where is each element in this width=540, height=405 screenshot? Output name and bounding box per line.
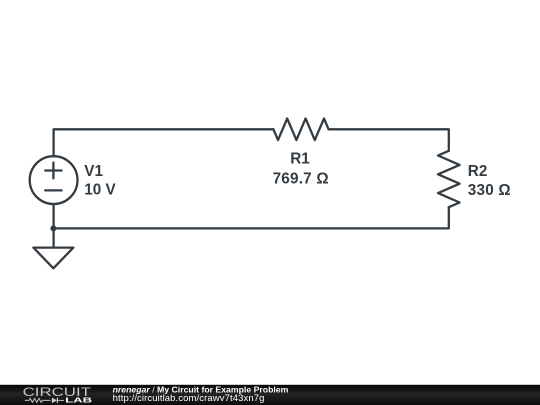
svg-text:V1: V1 <box>84 163 103 180</box>
logo resistor squiggle <box>25 398 51 402</box>
svg-text:330 Ω: 330 Ω <box>468 182 511 199</box>
logo CIRCUIT text <box>23 386 91 399</box>
resistor R2 <box>438 151 460 207</box>
svg-text:769.7 Ω: 769.7 Ω <box>273 171 329 188</box>
wire V1 bottom to ground <box>52 204 54 248</box>
logo LAB text <box>65 396 92 404</box>
svg-text:10 V: 10 V <box>84 182 116 199</box>
footer bar <box>0 385 540 405</box>
svg-text:R1: R1 <box>290 151 310 168</box>
voltage source V1 circle <box>30 156 78 204</box>
V1 plus sign <box>45 163 61 179</box>
wire top rail right of R1 <box>329 129 449 151</box>
svg-text:R2: R2 <box>468 163 488 180</box>
logo diode <box>52 398 57 404</box>
V1 minus sign <box>45 189 61 191</box>
node junction dot <box>50 225 56 231</box>
ground <box>33 248 73 269</box>
svg-text:http://circuitlab.com/crawv7t4: http://circuitlab.com/crawv7t43xn7g <box>113 393 265 404</box>
resistor R1 <box>273 119 328 141</box>
svg-text:LAB: LAB <box>65 396 92 404</box>
wire right down to bottom rail <box>54 207 449 228</box>
wire top-left from V1 top to top rail <box>54 129 274 156</box>
